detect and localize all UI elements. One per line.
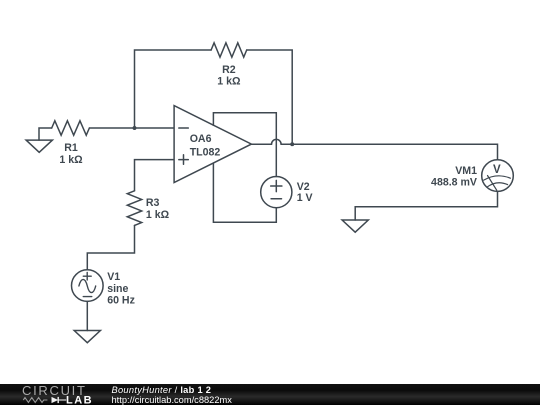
ground (R1): [26, 140, 52, 152]
credit text: [112, 385, 232, 405]
resistor R3: [127, 191, 141, 226]
svg-text:sine: sine: [107, 283, 128, 295]
wire node A to inverting input: [135, 127, 175, 129]
wire VM1 to ground: [355, 191, 497, 220]
logo diode symbol: [52, 397, 59, 403]
wire V+ pin to V2 plus terminal: [213, 113, 276, 177]
svg-text:1 V: 1 V: [297, 192, 313, 204]
source V2: [261, 177, 292, 208]
op-amp OA6 triangle: [174, 106, 251, 183]
svg-text:1 kΩ: 1 kΩ: [59, 154, 83, 166]
footer bar: [0, 384, 540, 405]
wire V1 to ground: [86, 301, 88, 330]
logo resistor symbol: [23, 398, 47, 403]
svg-text:1 kΩ: 1 kΩ: [146, 209, 170, 221]
svg-text:V: V: [493, 164, 501, 176]
resistor R2: [211, 43, 247, 57]
wire R1 to node A: [89, 127, 134, 129]
wire V- pin to V2 minus terminal: [213, 163, 276, 222]
svg-text:R1: R1: [64, 142, 78, 154]
svg-text:488.8 mV: 488.8 mV: [431, 177, 477, 189]
svg-text:TL082: TL082: [190, 146, 221, 158]
svg-text:60 Hz: 60 Hz: [107, 295, 135, 307]
svg-text:R3: R3: [146, 197, 160, 209]
svg-text:1 kΩ: 1 kΩ: [217, 75, 241, 87]
svg-text:LAB: LAB: [66, 395, 93, 406]
node A junction dot: [133, 126, 137, 130]
ground (V1): [74, 331, 100, 343]
wire non-inverting input to R3: [135, 160, 175, 191]
wire node A up to feedback rail: [135, 50, 212, 128]
op-amp non-inverting pin symbol: [179, 155, 189, 165]
resistor R1: [52, 121, 90, 135]
wire op-amp output with hop over V2 rail: [251, 139, 497, 159]
svg-text:VM1: VM1: [455, 165, 477, 177]
output node junction dot: [290, 142, 294, 146]
wire R3 to V1: [87, 225, 134, 269]
svg-text:V1: V1: [107, 271, 120, 283]
wire R2 to output node: [247, 50, 293, 144]
op-amp inverting pin symbol: [179, 127, 189, 129]
CircuitLab logo: [0, 384, 110, 405]
svg-text:V2: V2: [297, 181, 310, 193]
voltmeter VM1: [482, 160, 514, 192]
wire R1 ground lead: [39, 128, 52, 140]
svg-text:OA6: OA6: [190, 133, 212, 145]
source V1: [72, 270, 104, 302]
ground (VM1): [342, 220, 368, 232]
